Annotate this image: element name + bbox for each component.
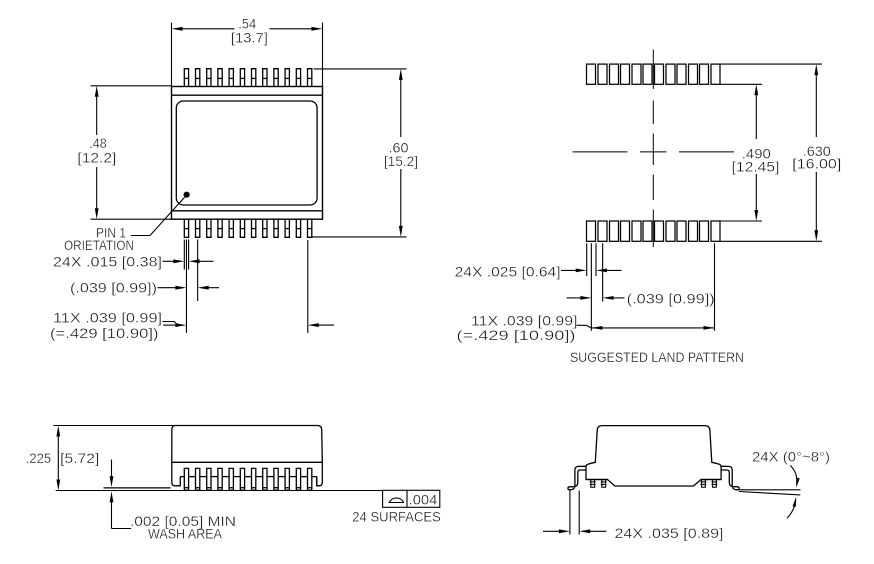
svg-text:.225: .225 xyxy=(26,451,51,466)
dimension 24X .035: arrows xyxy=(543,530,561,532)
dimension 11X .039: arrows xyxy=(163,324,177,326)
side view: lead 9 xyxy=(274,468,278,490)
top view: pin 4 (top row) xyxy=(218,69,222,87)
side view: lead 10 xyxy=(285,468,289,490)
land pattern: pad 19 (bottom row) xyxy=(655,221,664,241)
land pattern: pad 14 (bottom row) xyxy=(598,221,607,241)
land pattern: pad 18 (bottom row) xyxy=(643,221,652,241)
land pattern: pad 24 (bottom row) xyxy=(711,221,720,241)
vertical centerline (dashed) xyxy=(652,50,654,248)
end view: body bottom right edge xyxy=(701,479,721,481)
side view: lead 5 xyxy=(229,468,233,490)
svg-text:(.039 [0.99]): (.039 [0.99]) xyxy=(70,281,157,296)
top view: pin 19 (bottom row) xyxy=(252,219,256,237)
top view: pin 5 (top row) xyxy=(229,69,233,87)
end view: stub lead 4 (right pair) xyxy=(712,480,718,488)
end view: seating plane reference line (angle wedge upper) xyxy=(737,489,800,491)
dimension 24X .025: leader and arrows xyxy=(561,269,578,271)
side view: lead 12 xyxy=(308,468,312,490)
side view: right skirt inner edge xyxy=(316,477,318,486)
top view: pin 9 (top row) xyxy=(274,69,278,87)
flatness symbol xyxy=(389,498,405,503)
land pattern: pad 1 (top row) xyxy=(587,64,596,84)
land pattern: pad 4 (top row) xyxy=(621,64,630,84)
dimension .225: dimension line with arrows xyxy=(57,435,59,482)
pin 12 center extension line xyxy=(307,240,309,333)
svg-text:(=.429 [10.90]): (=.429 [10.90]) xyxy=(50,326,159,341)
land pattern: pad 10 (top row) xyxy=(689,64,698,84)
dimension .60 right: dimension line with arrows xyxy=(400,78,402,137)
top view: pin 12 (top row) xyxy=(308,69,312,87)
end view: stub lead 1 (left pair) xyxy=(590,480,596,488)
top view: pin 3 (top row) xyxy=(207,69,211,87)
top view: body bottom parting line xyxy=(172,210,323,212)
land pattern: pad 15 (bottom row) xyxy=(610,221,619,241)
top view: body top parting line xyxy=(172,94,323,96)
side view: lead 2 xyxy=(196,468,200,490)
side view: lead 6 xyxy=(240,468,244,490)
horizontal centerline (dashed) xyxy=(573,151,735,153)
land pattern: pad 17 (bottom row) xyxy=(632,221,641,241)
dimension .630: dimension line with arrows xyxy=(815,73,817,137)
top view: pin 6 (top row) xyxy=(240,69,244,87)
flatness callout box xyxy=(383,490,440,507)
top view: pin 21 (bottom row) xyxy=(274,219,278,237)
pin 1 leader line xyxy=(131,197,185,235)
svg-text:11X .039 [0.99]: 11X .039 [0.99] xyxy=(471,313,578,328)
dimension .48 left: extension lines xyxy=(91,86,172,219)
svg-text:24X (0°~8°): 24X (0°~8°) xyxy=(752,450,830,465)
top view: inner body rounded outline xyxy=(176,101,317,205)
pad 12 center extension line xyxy=(714,243,716,330)
dimension (.039) land: arrows xyxy=(567,297,583,299)
svg-text:[16.00]: [16.00] xyxy=(792,157,841,172)
end view: body bottom left edge xyxy=(586,479,608,481)
land pattern: pad 11 (top row) xyxy=(700,64,709,84)
land pattern: pad 5 (top row) xyxy=(632,64,641,84)
end view: foot angle line (angle wedge lower) xyxy=(739,492,800,495)
side view: lead 1 xyxy=(184,468,188,490)
angle leader arc upper with arrow xyxy=(790,466,797,485)
svg-text:.54: .54 xyxy=(238,17,256,32)
svg-text:.004: .004 xyxy=(409,493,438,508)
svg-text:(=.429 [10.90]): (=.429 [10.90]) xyxy=(457,328,576,343)
svg-text:SUGGESTED LAND PATTERN: SUGGESTED LAND PATTERN xyxy=(570,350,744,365)
dimension 24X .015: arrows xyxy=(163,260,176,262)
pin width extension lines (pin 1 edges and centerline) xyxy=(184,240,188,333)
side view: recess bottom web segments between leads xyxy=(180,476,316,478)
top view: pin 16 (bottom row) xyxy=(218,219,222,237)
svg-text:[13.7]: [13.7] xyxy=(231,31,268,46)
svg-text:11X .039 [0.99]: 11X .039 [0.99] xyxy=(53,310,162,325)
svg-text:24X .035 [0.89]: 24X .035 [0.89] xyxy=(615,526,724,541)
dimension .225: extension line xyxy=(54,425,176,427)
dimension .002: upper arrow pointing down xyxy=(111,460,113,479)
side view: lead 4 xyxy=(218,468,222,490)
angle leader arc lower with arrow xyxy=(787,501,796,519)
top view: pin 7 (top row) xyxy=(252,69,256,87)
dimension .54 top: extension lines xyxy=(172,23,323,87)
dimension 24X .035: extension lines xyxy=(570,491,579,535)
svg-text:[15.2]: [15.2] xyxy=(384,154,418,169)
dimension .490: extension lines xyxy=(720,84,762,221)
svg-text:.48: .48 xyxy=(89,136,106,151)
land pattern: pad 8 (top row) xyxy=(666,64,675,84)
dimension 11X .039: leader from text xyxy=(163,322,179,326)
side view: body bottom line xyxy=(172,461,322,463)
land pattern: pad 7 (top row) xyxy=(655,64,664,84)
top view: pin 2 (top row) xyxy=(196,69,200,87)
land pattern: pad 9 (top row) xyxy=(677,64,686,84)
top view: pin 22 (bottom row) xyxy=(285,219,289,237)
land pattern: pad 20 (bottom row) xyxy=(666,221,675,241)
top view: pin 10 (top row) xyxy=(285,69,289,87)
pin 2 center extension line xyxy=(197,240,199,302)
svg-text:[12.2]: [12.2] xyxy=(77,151,116,166)
svg-text:24 SURFACES: 24 SURFACES xyxy=(352,509,441,524)
top view: pin 1 (top row) xyxy=(184,69,188,87)
side view: lead 7 xyxy=(252,468,256,490)
top view: pin 13 (bottom row) xyxy=(184,219,188,237)
svg-text:[5.72]: [5.72] xyxy=(60,451,99,466)
svg-text:ORIETATION: ORIETATION xyxy=(64,238,134,253)
land pattern: pad 3 (top row) xyxy=(610,64,619,84)
top view: pin 8 (top row) xyxy=(263,69,267,87)
dimension (.039): arrows xyxy=(158,287,178,289)
land pattern: pad 22 (bottom row) xyxy=(689,221,698,241)
top view: pin 23 (bottom row) xyxy=(296,219,300,237)
dimension .630: extension lines xyxy=(720,64,822,241)
top view: pin 17 (bottom row) xyxy=(229,219,233,237)
dimension .48 left: dimension line with arrows xyxy=(96,95,98,135)
top view: pin 15 (bottom row) xyxy=(207,219,211,237)
side view: wash area line xyxy=(104,487,171,489)
pad 2 center extension line xyxy=(602,243,604,301)
svg-text:24X .015 [0.38]: 24X .015 [0.38] xyxy=(53,254,162,269)
pin 1 orientation dot xyxy=(184,192,190,198)
top view: pin 20 (bottom row) xyxy=(263,219,267,237)
dimension .60 right: extension lines xyxy=(311,69,407,237)
side view: lead 11 xyxy=(296,468,300,490)
svg-text:(.039 [0.99]): (.039 [0.99]) xyxy=(627,292,715,307)
land pattern: pad 2 (top row) xyxy=(598,64,607,84)
top view: pin 18 (bottom row) xyxy=(240,219,244,237)
land pattern: pad 12 (top row) xyxy=(711,64,720,84)
end view: left gull-wing lead xyxy=(568,466,586,490)
land pattern: pad 6 (top row) xyxy=(643,64,652,84)
end view: stub lead 3 (right pair) xyxy=(701,480,707,488)
top view: pin 24 (bottom row) xyxy=(308,219,312,237)
dimension .54 top: dimension line with arrows xyxy=(181,28,235,30)
svg-text:[12.45]: [12.45] xyxy=(732,160,780,175)
dimension .490: dimension line with arrows xyxy=(755,93,757,139)
side view: package body outline xyxy=(172,426,322,486)
pad width extension lines (pad 1 edges and centerline) xyxy=(587,243,596,330)
svg-text:24X .025 [0.64]: 24X .025 [0.64] xyxy=(455,265,561,280)
top view: package body outline xyxy=(172,87,323,220)
dimension 11X land: dimension line with outward arrows xyxy=(591,327,714,329)
land pattern: pad 16 (bottom row) xyxy=(621,221,630,241)
dimension 11X land: leader from text xyxy=(577,325,592,328)
land pattern: pad 21 (bottom row) xyxy=(677,221,686,241)
land pattern: pad 23 (bottom row) xyxy=(700,221,709,241)
land pattern: pad 13 (bottom row) xyxy=(587,221,596,241)
side view: lead 8 xyxy=(263,468,267,490)
end view: stub lead 2 (left pair) xyxy=(601,480,607,488)
side view: seating plane line xyxy=(56,490,383,492)
dimension .002: lower arrow pointing up and leader xyxy=(111,501,113,529)
top view: pin 14 (bottom row) xyxy=(196,219,200,237)
top view: pin 11 (top row) xyxy=(296,69,300,87)
svg-text:WASH AREA: WASH AREA xyxy=(148,527,223,542)
side view: lead 3 xyxy=(207,468,211,490)
end view: package body outline xyxy=(586,426,721,486)
end view: right gull-wing lead xyxy=(721,466,739,490)
